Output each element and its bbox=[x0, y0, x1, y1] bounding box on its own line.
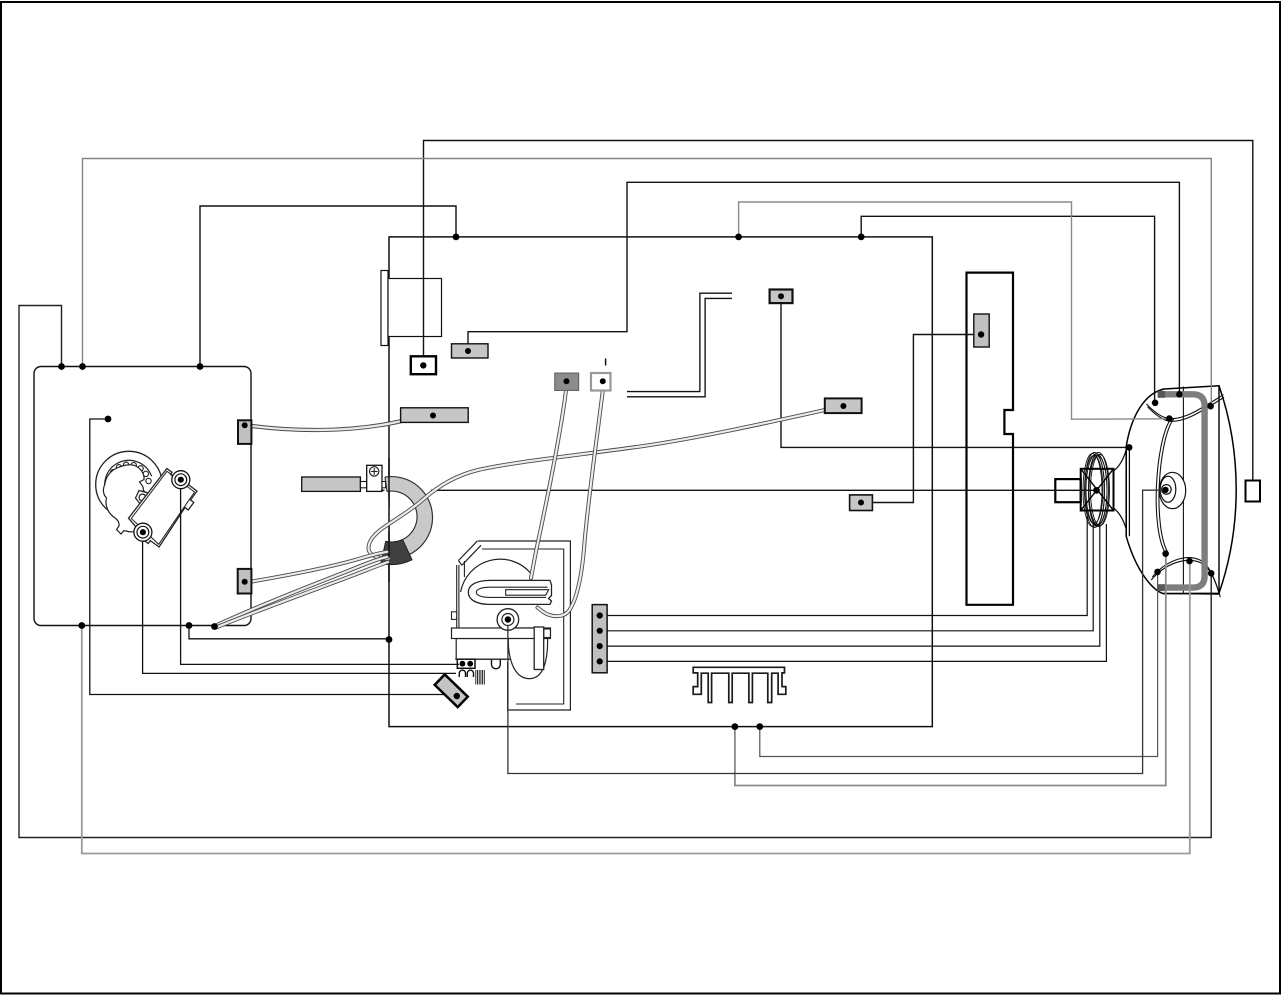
wire motor T1 to pickup pins bbox=[181, 488, 459, 664]
wire gray harness-top loop to CRT top rim bbox=[83, 159, 1212, 407]
connector B1 bbox=[452, 344, 489, 358]
wire gray main board top to CRT screen valley bbox=[739, 202, 1170, 419]
strap end caps bbox=[1158, 391, 1165, 398]
connector W603 bbox=[591, 373, 611, 391]
pin PC bbox=[978, 331, 984, 337]
connector C245 bbox=[238, 569, 252, 594]
pin D566 bbox=[564, 378, 570, 384]
bracket thin box top-left bbox=[381, 271, 388, 346]
flex wire 2 from 4pin connector to yoke bbox=[605, 519, 1093, 631]
node crt screen valley bbox=[1166, 415, 1173, 422]
grip bar bbox=[302, 477, 361, 491]
node harness top x82 bbox=[79, 363, 86, 370]
connector PC on pcb bbox=[974, 314, 989, 347]
connector SC bbox=[850, 495, 873, 511]
node harness bottom x81 bbox=[78, 622, 85, 629]
node harness top x61 bbox=[58, 363, 65, 370]
wire pcb connector to small connector SC bbox=[872, 335, 979, 503]
twisted pair C425 to long connector LC bbox=[248, 416, 431, 431]
pins pickup block bbox=[460, 661, 466, 667]
node main board left edge bbox=[386, 636, 393, 643]
crt bell and face outline bbox=[1126, 386, 1236, 594]
wire main board bottom to CRT bottom rim bbox=[760, 572, 1158, 757]
WIRES-LONG bbox=[19, 141, 1253, 854]
wire horizontal to yoke centre bbox=[381, 489, 385, 491]
motor bearing ring inner bbox=[113, 469, 143, 492]
node main board top x456 bbox=[453, 234, 460, 241]
wire gray main board bottom to CRT screen arc bbox=[735, 554, 1166, 786]
connector J1 bbox=[411, 356, 436, 374]
twisted wire bundle dot to tube cap bbox=[215, 557, 387, 626]
deflection yoke box with X bbox=[1081, 469, 1114, 511]
node crt top rim right bbox=[1207, 403, 1214, 410]
crt top rim double arc bbox=[1147, 395, 1224, 419]
twisted wire C245 to tube cap bbox=[252, 552, 387, 582]
wire connector C781 to CRT flange bbox=[781, 299, 1127, 447]
pin J1 bbox=[420, 362, 426, 368]
pickup step right of bar bbox=[544, 629, 551, 638]
node crt strap top bbox=[1176, 391, 1183, 398]
bracket box top-left bbox=[388, 279, 442, 337]
node crt top rim left bbox=[1152, 400, 1159, 407]
motor mounting plate bbox=[129, 469, 198, 548]
pickup base bottom edge bbox=[455, 658, 510, 660]
node crt screen bottom bbox=[1162, 550, 1169, 557]
crt ground strap bbox=[1161, 394, 1205, 587]
heatsink HS1 bbox=[693, 667, 786, 702]
flex wire 1 from 4pin connector to yoke bbox=[605, 516, 1087, 616]
pickup plate inner edge bbox=[482, 549, 564, 704]
pin B1 bbox=[465, 348, 471, 354]
yoke to bell join curves bbox=[1114, 450, 1127, 471]
crt screen interior edge bbox=[1182, 387, 1184, 594]
wire pickup pivot to CRT gun bbox=[508, 490, 1163, 773]
connector C781 bbox=[770, 290, 793, 304]
bar coupler bbox=[360, 482, 366, 488]
node crt bottom rim right bbox=[1208, 570, 1215, 577]
twisted wire dark box to pickup drum bbox=[531, 391, 566, 579]
motor terminal T2 bbox=[134, 523, 152, 541]
motor bearing balls bbox=[106, 462, 151, 496]
node crt flange bbox=[1126, 444, 1133, 451]
node harness bottom x189 bbox=[186, 622, 193, 629]
small box right of crt bbox=[1246, 481, 1261, 502]
twisted wire bundle second strand to dot2 bbox=[216, 562, 388, 628]
screw head bbox=[370, 467, 379, 476]
motor terminal T1 bbox=[172, 471, 190, 489]
pin C843 bbox=[840, 403, 846, 409]
connector LC bbox=[401, 408, 469, 423]
pickup roof band bbox=[459, 541, 482, 566]
pickup ribbon stripes bbox=[476, 670, 485, 685]
node crt bottom rim top bbox=[1186, 558, 1193, 565]
node housing stub bbox=[105, 416, 112, 423]
wire harness to main board top bbox=[200, 206, 456, 367]
crt neck stub bbox=[1055, 479, 1080, 502]
wire guide tube bbox=[345, 471, 432, 563]
wire J1 to box right of CRT bbox=[424, 141, 1253, 482]
pickup right horseshoe bbox=[492, 660, 501, 669]
crt face bottom edge bbox=[1163, 592, 1220, 595]
pickup plate outer bbox=[478, 541, 570, 710]
connector C843 bbox=[825, 398, 862, 413]
node harness top x200 bbox=[197, 363, 204, 370]
pin SC bbox=[858, 500, 864, 506]
main board outline bbox=[389, 237, 932, 727]
crt flange bbox=[1125, 447, 1127, 537]
pickup drum arc bbox=[461, 559, 531, 592]
pin C425 bbox=[242, 422, 248, 428]
pickup left tab bbox=[452, 612, 457, 620]
pickup bottom bulge bbox=[508, 628, 547, 679]
connector 4pin strip bbox=[592, 605, 607, 673]
bracket stub bbox=[382, 482, 386, 488]
node yoke centre bbox=[1093, 487, 1100, 494]
wire gray harness bottom to CRT bottom bbox=[82, 561, 1190, 853]
crt face rim vertical edge bbox=[1218, 386, 1220, 593]
harness loop rounded rect bbox=[34, 367, 251, 626]
pins 4pin strip bbox=[597, 612, 603, 618]
node crt bottom rim left bbox=[1154, 569, 1161, 576]
pickup right bar bbox=[534, 627, 544, 670]
pickup left rails bbox=[457, 561, 465, 628]
connector diagonal bbox=[435, 674, 468, 707]
pcb board P1 bbox=[967, 273, 1014, 605]
pickup table plate bbox=[452, 628, 551, 639]
motor plate inner edge bbox=[131, 471, 194, 544]
wire housing stub to diagonal connector bbox=[90, 419, 455, 695]
node bundle end x214 bbox=[211, 623, 218, 630]
twisted wire C843 sweep with loop through tube bbox=[369, 407, 842, 559]
pickup pin horseshoes bbox=[459, 670, 465, 677]
pickup head tongue bbox=[506, 590, 549, 596]
pickup pins box bbox=[457, 659, 475, 668]
deflection coil scribble bbox=[1083, 453, 1110, 528]
pickup lower block bbox=[456, 639, 520, 660]
wire motor T2 to pickup pins bbox=[143, 541, 456, 673]
node crt gun bbox=[1162, 487, 1168, 493]
main board left edge over tube bbox=[388, 458, 390, 582]
motor rotor pentagon bbox=[136, 491, 151, 506]
connector D566 dark bbox=[555, 373, 579, 390]
pin LC bbox=[430, 413, 436, 419]
wire main board top to CRT rim left bbox=[861, 216, 1154, 402]
electron gun bbox=[1159, 472, 1185, 508]
wire connector B1 to CRT strap top bbox=[468, 182, 1179, 394]
pin C781 bbox=[778, 293, 784, 299]
wire harness dot to main board left edge bbox=[189, 626, 389, 639]
flex wire 3 from 4pin connector to yoke bbox=[605, 522, 1100, 646]
screw bracket bbox=[367, 465, 382, 491]
flex wire 4 from 4pin connector to yoke bbox=[605, 524, 1106, 661]
twisted wire white box to pickup sled bbox=[538, 391, 603, 617]
Z bracket stiffener bbox=[627, 296, 732, 394]
connector C425 bbox=[238, 420, 251, 444]
TWISTED-WIRES bbox=[215, 391, 841, 628]
node main board top x861 bbox=[858, 234, 865, 241]
polarity tick bbox=[605, 359, 607, 366]
pickup pivot bearing bbox=[497, 609, 519, 631]
motor bearing ring outer bbox=[105, 460, 152, 496]
pickup head C shape outer bbox=[468, 580, 551, 604]
pickup head C inner bbox=[476, 587, 547, 597]
pin C245 bbox=[242, 579, 248, 585]
tube dark end cap bbox=[381, 540, 412, 565]
pin W603 bbox=[600, 378, 606, 384]
node main board bottom x759 bbox=[756, 723, 763, 730]
motor cam plate bbox=[103, 465, 156, 534]
node main board top x738 bbox=[735, 234, 742, 241]
motor rotor hub bbox=[139, 494, 146, 501]
motor M1 gear outer circle bbox=[96, 451, 162, 517]
pin diagonal connector bbox=[454, 693, 460, 699]
crt screen tall double arc bbox=[1156, 419, 1171, 554]
crt bottom rim double arc bbox=[1152, 558, 1219, 595]
wire long left-bottom loop to CRT bottom rim bbox=[19, 306, 1211, 838]
node main board bottom x734 bbox=[732, 723, 739, 730]
